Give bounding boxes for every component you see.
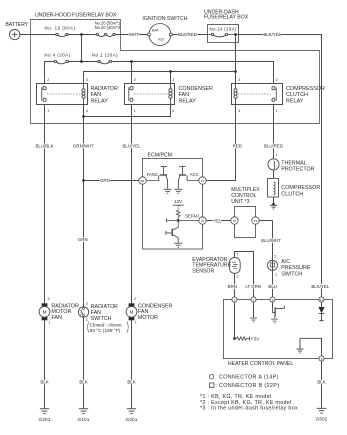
transistor heater BLU bbox=[271, 306, 284, 324]
20A fuse bus bbox=[45, 62, 274, 84]
svg-text:13: 13 bbox=[201, 179, 205, 183]
wire YEL ECM to multiplex bbox=[206, 220, 231, 222]
heater panel pin 2 LT GRN bbox=[251, 297, 256, 302]
svg-text:1: 1 bbox=[275, 153, 277, 157]
svg-text:B6: B6 bbox=[141, 179, 145, 183]
svg-text:93 °C (199 °F): 93 °C (199 °F) bbox=[90, 328, 121, 334]
diode bbox=[318, 307, 324, 313]
wire evaporator sensor pin1 to LT GRN drop bbox=[235, 252, 254, 300]
radiator fan relay box bbox=[37, 84, 88, 105]
svg-text:BLU: BLU bbox=[268, 284, 277, 289]
svg-text:2: 2 bbox=[48, 297, 50, 301]
svg-text:2: 2 bbox=[134, 297, 136, 301]
svg-text:4: 4 bbox=[172, 109, 174, 113]
wire compressor relay pin1 BLU/RED down to thermal protector bbox=[273, 105, 275, 159]
radiator fan relay contact bbox=[42, 87, 46, 102]
wire fuse No.19 to No.20 fuses bbox=[68, 34, 96, 36]
junction dot sensor divider node bbox=[233, 337, 236, 340]
svg-text:FANC: FANC bbox=[147, 172, 158, 177]
ground G101 radiator fan switch bbox=[79, 409, 88, 414]
svg-text:SEFMJ: SEFMJ bbox=[185, 213, 199, 218]
svg-text:RELAY: RELAY bbox=[286, 99, 304, 105]
svg-text:No. 19 (80A): No. 19 (80A) bbox=[45, 25, 76, 30]
svg-text:FAN: FAN bbox=[51, 315, 62, 321]
fuse No.19 bbox=[56, 33, 68, 36]
svg-text:LT GRN: LT GRN bbox=[245, 284, 261, 289]
svg-text:: CONNECTOR B (22P): : CONNECTOR B (22P) bbox=[215, 383, 279, 389]
wire condenser fan motor to ground bbox=[131, 320, 133, 408]
svg-text:RADIATOR: RADIATOR bbox=[91, 86, 118, 92]
svg-text:UNDER-HOOD FUSE/RELAY BOX: UNDER-HOOD FUSE/RELAY BOX bbox=[35, 13, 117, 19]
radiator fan switch bbox=[78, 307, 88, 317]
radiator fan relay coil bbox=[82, 84, 85, 105]
ground heater internal bbox=[297, 349, 304, 353]
fuse No.4 bbox=[54, 60, 68, 64]
svg-text:PROTECTOR: PROTECTOR bbox=[281, 167, 314, 173]
svg-text:*3 : In the under-dash fuse/re: *3 : In the under-dash fuse/relay box bbox=[200, 406, 298, 412]
fuse No.1 bbox=[98, 60, 112, 64]
svg-text:1: 1 bbox=[134, 109, 136, 113]
condenser fan relay actuation dashed line bbox=[134, 93, 168, 95]
wire radiator fan switch to ground bbox=[83, 317, 85, 408]
wire No.14 to right margin bbox=[239, 35, 322, 51]
svg-text:1: 1 bbox=[135, 321, 137, 325]
svg-text:12V: 12V bbox=[174, 199, 182, 204]
svg-text:1: 1 bbox=[237, 253, 239, 257]
svg-text:2: 2 bbox=[276, 78, 278, 82]
junction dot coil bus compressor bbox=[234, 70, 237, 73]
svg-text:4: 4 bbox=[238, 109, 240, 113]
svg-text:Closed : Above: Closed : Above bbox=[90, 322, 123, 328]
FANC driver transistor bbox=[146, 167, 171, 194]
svg-text:G101: G101 bbox=[78, 417, 90, 423]
12V supply bar bbox=[173, 204, 184, 206]
junction dot coil link on GRN/WHT wire bbox=[82, 115, 85, 118]
fuse No.20 (double) bbox=[96, 33, 115, 36]
wire radiator fan motor to ground bbox=[44, 320, 46, 408]
wire FANC to GRN/WHT column bbox=[84, 180, 139, 182]
fuse No.14 bbox=[208, 33, 239, 37]
svg-text:BLK: BLK bbox=[40, 379, 48, 384]
svg-text:2: 2 bbox=[274, 255, 276, 259]
wire ignition switch IG2 to under-dash box bbox=[172, 34, 207, 36]
svg-text:RED: RED bbox=[233, 143, 242, 148]
radiator fan motor bbox=[39, 303, 50, 320]
svg-text:G502: G502 bbox=[316, 417, 328, 423]
svg-text:ACC: ACC bbox=[190, 172, 199, 177]
svg-text:UNIT *3: UNIT *3 bbox=[231, 199, 249, 205]
svg-text:IGNITION SWITCH: IGNITION SWITCH bbox=[142, 16, 187, 22]
wire F9 to A/C pressure switch column bbox=[259, 220, 272, 222]
condenser fan motor bbox=[126, 303, 137, 320]
radiator fan relay actuation dashed line bbox=[47, 93, 81, 95]
heater internal: LT GRN ground bbox=[253, 302, 255, 317]
junction dot No.14 fuse output bbox=[234, 33, 237, 36]
ACC driver transistor bbox=[174, 167, 198, 194]
svg-text:CLUTCH: CLUTCH bbox=[281, 191, 303, 197]
ECM pin 13 ACC bbox=[199, 177, 206, 184]
wire radiator relay pin4 GRN/WHT down bbox=[83, 105, 85, 308]
legend connector A symbol bbox=[209, 375, 213, 379]
svg-text:: CONNECTOR A (14P): : CONNECTOR A (14P) bbox=[215, 375, 278, 381]
svg-text:WHT: WHT bbox=[129, 32, 139, 37]
svg-text:5V: 5V bbox=[254, 336, 259, 341]
condenser fan relay contact bbox=[129, 87, 133, 102]
junction dot battery bus bbox=[80, 33, 83, 36]
wire battery to fuse No.19 bbox=[20, 34, 56, 36]
compressor clutch relay box bbox=[232, 84, 283, 105]
heater control panel box bbox=[224, 300, 333, 359]
svg-text:RELAY: RELAY bbox=[179, 99, 197, 105]
svg-text:3: 3 bbox=[172, 78, 174, 82]
svg-text:No.1 (20A): No.1 (20A) bbox=[92, 53, 118, 58]
svg-text:1: 1 bbox=[47, 109, 49, 113]
svg-text:GRN: GRN bbox=[78, 237, 88, 242]
svg-text:BLU/BLK: BLU/BLK bbox=[35, 143, 53, 148]
svg-text:BLK: BLK bbox=[127, 379, 135, 384]
compressor clutch relay contact bbox=[272, 87, 276, 102]
svg-text:BLK: BLK bbox=[317, 379, 325, 384]
svg-text:1: 1 bbox=[48, 321, 50, 325]
svg-text:F9: F9 bbox=[254, 219, 258, 223]
svg-text:BATTERY: BATTERY bbox=[6, 22, 29, 28]
condenser fan relay box bbox=[125, 84, 175, 105]
heater panel pin 14 BLK/YEL bbox=[319, 297, 324, 302]
svg-text:FAN: FAN bbox=[91, 92, 102, 98]
wire condenser relay pin1 BLU/YEL down to condenser fan motor bbox=[131, 105, 133, 304]
svg-text:HEATER CONTROL PANEL: HEATER CONTROL PANEL bbox=[228, 361, 293, 367]
svg-text:2: 2 bbox=[237, 275, 239, 279]
wire heater panel BLK to G502 bbox=[321, 361, 323, 408]
wire compressor clutch to ground bbox=[273, 197, 275, 205]
svg-text:BLU/RED: BLU/RED bbox=[264, 144, 283, 149]
svg-text:G201: G201 bbox=[126, 417, 138, 423]
multiplex pin F9 bbox=[252, 217, 259, 224]
svg-text:24: 24 bbox=[201, 219, 205, 223]
svg-text:14: 14 bbox=[320, 298, 324, 302]
resistor divider to 5V bbox=[235, 336, 252, 340]
ECM pin B6 FANC bbox=[139, 177, 146, 184]
heater panel pin 9 BLU bbox=[270, 297, 275, 302]
heater internal: BLK/YEL diode wire bbox=[321, 302, 323, 307]
svg-text:BLU/YEL: BLU/YEL bbox=[122, 143, 141, 148]
wire compressor relay pin4 RED down to ECM ACC bbox=[206, 105, 235, 181]
ground heater LT GRN bbox=[250, 318, 257, 322]
heater internal: BLU transistor wire bbox=[272, 302, 274, 307]
svg-text:3: 3 bbox=[86, 78, 88, 82]
wire No.1 fuse down to condenser fan relay pin 2 bbox=[131, 62, 133, 84]
svg-text:1: 1 bbox=[276, 109, 278, 113]
svg-text:G201: G201 bbox=[39, 417, 51, 423]
svg-text:1: 1 bbox=[275, 273, 277, 277]
evaporator temperature sensor bbox=[229, 258, 240, 274]
heater panel bottom pin bbox=[319, 356, 324, 361]
svg-text:BLU/WHT: BLU/WHT bbox=[261, 238, 281, 243]
svg-text:RELAY: RELAY bbox=[91, 99, 109, 105]
under-dash fuse/relay box bbox=[208, 25, 239, 43]
svg-text:BLK/YEL: BLK/YEL bbox=[263, 32, 281, 37]
junction dot No.1 fuse to condenser relay contact bbox=[130, 60, 133, 63]
svg-text:YEL: YEL bbox=[213, 218, 222, 223]
svg-text:MOTOR: MOTOR bbox=[138, 315, 158, 321]
svg-text:BLK: BLK bbox=[79, 379, 87, 384]
wire sensor to heater panel BRN bbox=[234, 273, 236, 299]
svg-text:COMPRESSOR: COMPRESSOR bbox=[281, 185, 320, 191]
svg-text:SWITCH: SWITCH bbox=[281, 272, 302, 278]
svg-text:No.14 (10A): No.14 (10A) bbox=[210, 27, 237, 32]
ECM pin 24 SEFMJ bbox=[199, 217, 206, 224]
ignition switch bbox=[147, 24, 172, 46]
ECM/PCM box bbox=[143, 159, 203, 250]
ground compressor clutch bbox=[270, 203, 277, 209]
svg-text:M: M bbox=[43, 310, 47, 315]
thermal protector bbox=[268, 159, 279, 170]
multiplex control unit box bbox=[235, 207, 256, 238]
svg-text:1: 1 bbox=[86, 318, 88, 322]
condenser fan relay coil bbox=[169, 84, 172, 105]
svg-text:BRN: BRN bbox=[228, 284, 237, 289]
svg-text:2: 2 bbox=[134, 78, 136, 82]
ground G502 bbox=[317, 408, 326, 413]
svg-text:IG2: IG2 bbox=[158, 38, 164, 42]
battery bbox=[10, 29, 20, 39]
svg-text:PRESSURE: PRESSURE bbox=[281, 265, 311, 271]
junction dot SEFMJ node bbox=[177, 219, 180, 222]
multiplex pin 10 bbox=[231, 217, 238, 224]
svg-text:No.4 (20A): No.4 (20A) bbox=[44, 53, 70, 58]
svg-text:SWITCH: SWITCH bbox=[91, 316, 112, 322]
svg-text:GRN/WHT: GRN/WHT bbox=[73, 143, 94, 148]
12V dashed lead bbox=[177, 205, 179, 210]
svg-text:COMPRESSOR: COMPRESSOR bbox=[286, 86, 325, 92]
svg-text:BLK/RED: BLK/RED bbox=[178, 32, 197, 37]
svg-text:ECM/PCM: ECM/PCM bbox=[148, 152, 173, 158]
svg-text:BLK/YEL: BLK/YEL bbox=[311, 284, 329, 289]
heater internal: bottom pin to internal ground path bbox=[300, 338, 322, 356]
wire No.20 to ignition switch bbox=[115, 34, 147, 36]
compressor clutch relay actuation dashed line bbox=[238, 93, 271, 95]
heater internal: BRN sensor input wire bbox=[234, 302, 236, 338]
svg-text:CONDENSER: CONDENSER bbox=[179, 86, 214, 92]
wire condenser relay pin4 coil link bbox=[84, 105, 171, 117]
compressor clutch relay coil bbox=[234, 84, 237, 105]
svg-text:CLUTCH: CLUTCH bbox=[286, 92, 308, 98]
legend connector B symbol bbox=[209, 383, 214, 388]
ground G201 condenser fan motor bbox=[127, 409, 136, 414]
svg-text:2: 2 bbox=[86, 302, 88, 306]
resistor 12V pull-up bbox=[176, 210, 180, 221]
svg-text:BAT: BAT bbox=[152, 29, 160, 33]
wire junction down to 20A fuse bus bbox=[81, 35, 83, 62]
svg-text:4: 4 bbox=[86, 109, 88, 113]
svg-text:M: M bbox=[130, 310, 134, 315]
under-hood fuse/relay box outline bbox=[31, 20, 320, 124]
junction dot coil bus condenser bbox=[169, 70, 172, 73]
svg-text:FUSE/RELAY BOX: FUSE/RELAY BOX bbox=[204, 15, 249, 21]
wire thermal protector to compressor clutch bbox=[273, 170, 275, 179]
svg-text:THERMAL: THERMAL bbox=[281, 160, 306, 166]
compressor clutch coil box bbox=[268, 179, 279, 198]
heater panel pin 7 BRN bbox=[232, 297, 237, 302]
wire coil bus down to condenser fan relay pin 3 bbox=[170, 72, 172, 84]
svg-text:2: 2 bbox=[47, 78, 49, 82]
A/C pressure switch bbox=[268, 260, 278, 270]
wire BLU/WHT down through pressure switch to heater panel bbox=[272, 221, 274, 300]
svg-text:SENSOR: SENSOR bbox=[192, 268, 214, 274]
svg-text:3: 3 bbox=[238, 78, 240, 82]
junction dot GRN on GRN/WHT column bbox=[82, 179, 85, 182]
wire No.14 output drop bbox=[235, 35, 237, 72]
ground G201 radiator fan motor bbox=[40, 409, 49, 414]
SEFMJ node wire bbox=[167, 219, 199, 223]
IG2 coil bus bbox=[84, 72, 236, 84]
wire BLK/YEL right margin down to heater control panel bbox=[321, 50, 323, 300]
compressor clutch coil bbox=[274, 182, 276, 195]
svg-text:FAN: FAN bbox=[179, 92, 190, 98]
svg-text:No.20 (40A/*2: No.20 (40A/*2 bbox=[95, 25, 121, 30]
svg-text:10: 10 bbox=[233, 219, 237, 223]
wire No.14 drop down to compressor clutch relay pin 3 bbox=[235, 72, 237, 84]
svg-text:A/C: A/C bbox=[281, 259, 290, 265]
transistor Q SEFMJ bbox=[166, 221, 182, 248]
svg-text:GRN: GRN bbox=[100, 178, 110, 183]
junction dot battery drop on 20A bus bbox=[80, 60, 83, 63]
wire radiator relay pin1 BLU/BLK down to radiator fan motor bbox=[44, 105, 46, 304]
